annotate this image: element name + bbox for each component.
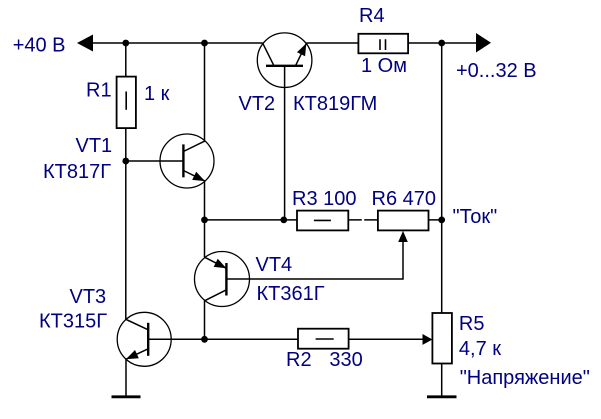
svg-text:R4: R4 [359,5,385,27]
svg-text:R3 100: R3 100 [292,188,357,210]
svg-text:1 к: 1 к [144,83,170,105]
svg-text:"Напряжение": "Напряжение" [460,367,590,389]
svg-text:330: 330 [329,349,362,371]
svg-text:"Ток": "Ток" [453,206,498,228]
svg-text:VT4: VT4 [256,254,293,276]
svg-text:R6 470: R6 470 [372,188,437,210]
svg-text:+0...32 В: +0...32 В [456,60,537,82]
svg-text:1 Ом: 1 Ом [361,55,407,77]
svg-text:4,7 к: 4,7 к [459,338,501,360]
svg-text:VT1: VT1 [76,135,113,157]
svg-text:КТ361Г: КТ361Г [257,283,325,305]
svg-text:+40 В: +40 В [13,35,66,57]
svg-text:КТ315Г: КТ315Г [39,311,107,333]
svg-text:VT2: VT2 [239,93,276,115]
svg-text:R2: R2 [286,349,312,371]
svg-text:R5: R5 [459,313,485,335]
svg-text:R1: R1 [86,80,112,102]
svg-text:КТ819ГМ: КТ819ГМ [293,93,377,115]
svg-text:VT3: VT3 [70,286,107,308]
svg-text:КТ817Г: КТ817Г [43,161,111,183]
